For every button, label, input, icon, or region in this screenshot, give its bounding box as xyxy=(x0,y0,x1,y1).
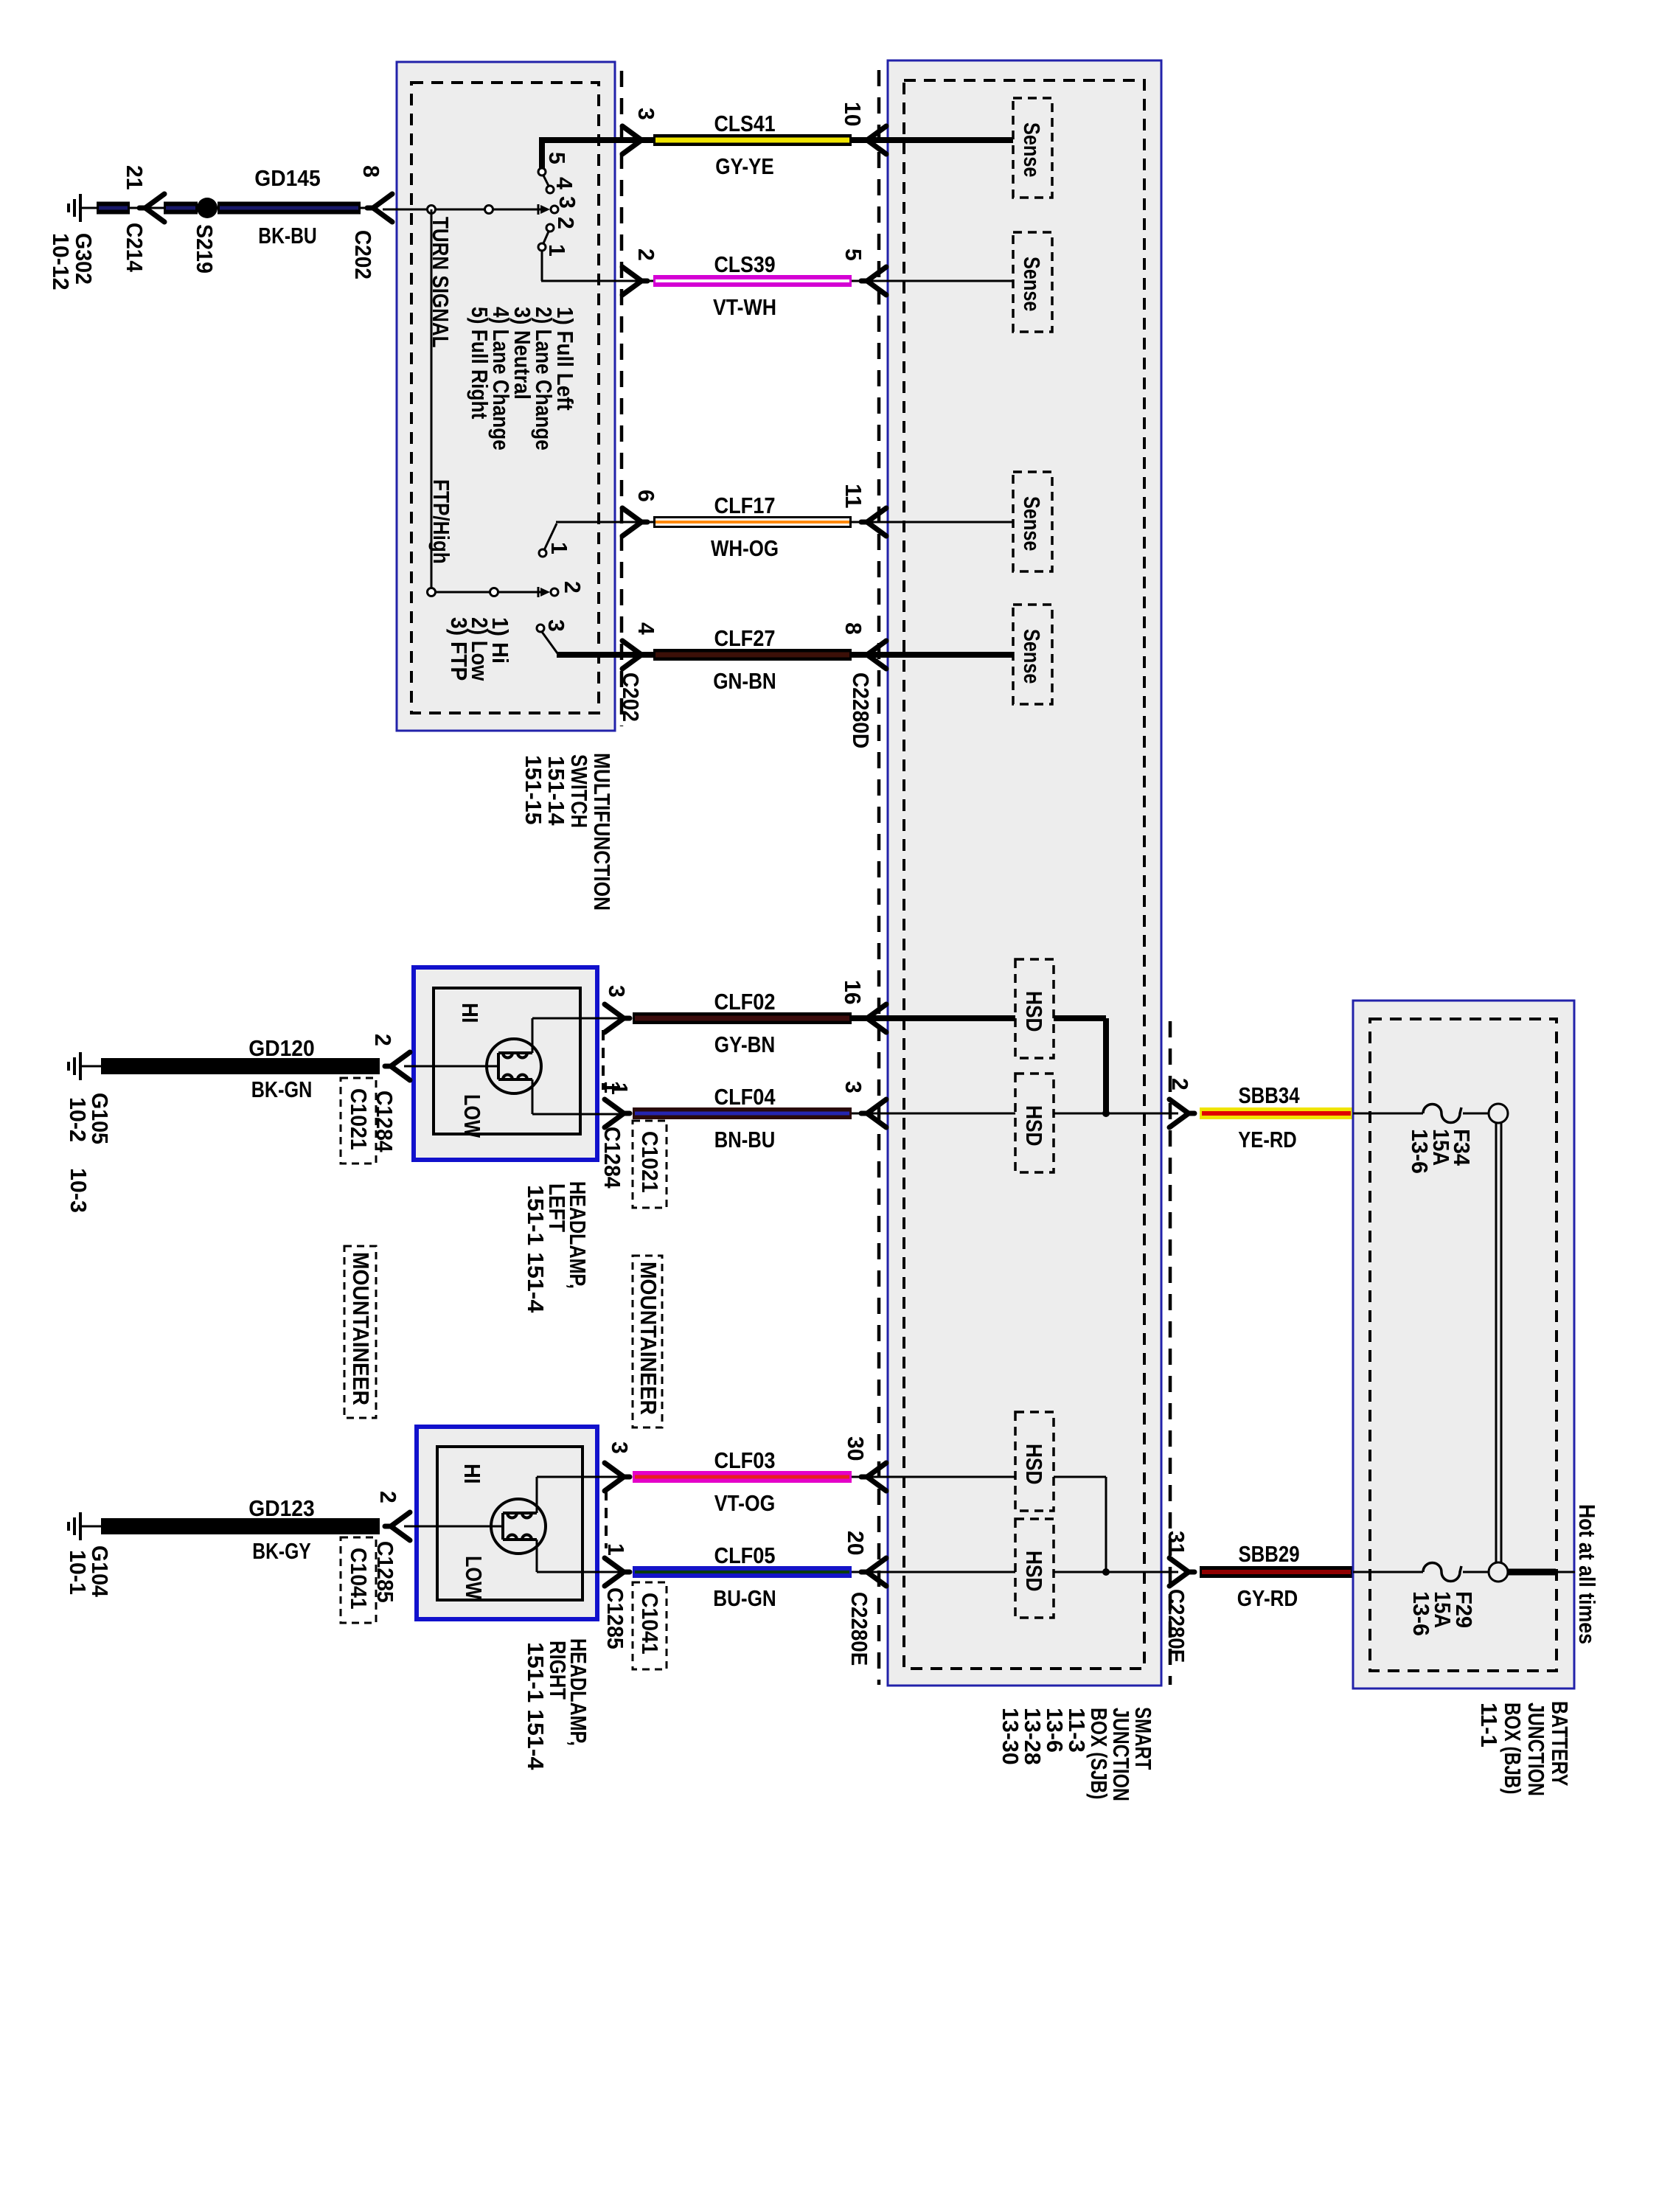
svg-text:Hot at all times: Hot at all times xyxy=(1574,1504,1600,1644)
mountaineer box right xyxy=(633,1256,662,1427)
svg-text:HI: HI xyxy=(457,1003,483,1023)
svg-text:1: 1 xyxy=(546,542,572,554)
connector C1285 dashed line right xyxy=(605,1490,608,1548)
svg-text:JUNCTION: JUNCTION xyxy=(1523,1703,1549,1796)
svg-text:C1041: C1041 xyxy=(637,1593,663,1655)
svg-text:151-1 151-4: 151-1 151-4 xyxy=(523,1185,549,1313)
connector C1284 dashed line left xyxy=(602,1030,605,1090)
svg-text:4: 4 xyxy=(552,177,577,190)
wire SBB34 YE-RD xyxy=(1200,1107,1353,1119)
sense box 3 xyxy=(1013,472,1052,571)
svg-text:4: 4 xyxy=(633,622,659,636)
turn signal contact 3 xyxy=(551,206,558,213)
wire ftp contact1 feed xyxy=(544,524,557,550)
wire CLF05 to C2280E xyxy=(1054,1571,1178,1573)
wire contact1 feed xyxy=(541,251,543,281)
svg-text:CLF03: CLF03 xyxy=(714,1447,775,1473)
svg-text:HSD: HSD xyxy=(1021,1444,1047,1485)
connector C202 arrow GD145 xyxy=(367,194,392,222)
svg-text:S219: S219 xyxy=(192,224,218,274)
ground G302 xyxy=(69,194,80,222)
svg-text:2: 2 xyxy=(375,1491,401,1503)
turn signal contact 2 xyxy=(546,224,554,232)
battery junction box xyxy=(1353,1001,1574,1688)
svg-text:C202: C202 xyxy=(618,672,644,722)
node A xyxy=(428,206,436,214)
wire GD145 BK-BU xyxy=(218,202,361,215)
svg-text:C1284: C1284 xyxy=(599,1127,625,1189)
svg-text:C202: C202 xyxy=(350,230,376,279)
svg-text:Sense: Sense xyxy=(1019,257,1045,312)
svg-text:HSD: HSD xyxy=(1021,1551,1047,1592)
svg-text:BK-GN: BK-GN xyxy=(251,1077,313,1102)
svg-text:151-14: 151-14 xyxy=(543,756,569,826)
svg-text:3: 3 xyxy=(633,108,659,120)
wire CLS39 row xyxy=(615,280,653,282)
svg-text:2: 2 xyxy=(560,581,585,594)
wire GD123 BK-GY xyxy=(101,1518,380,1534)
wire SBB29 GY-RD xyxy=(1200,1566,1353,1578)
fuse F34 xyxy=(1423,1105,1461,1123)
node D xyxy=(490,588,498,597)
svg-text:C2280D: C2280D xyxy=(848,672,874,748)
svg-text:LOW: LOW xyxy=(461,1556,487,1600)
wire G104 stub xyxy=(80,1526,101,1528)
ring terminal F29 xyxy=(1489,1562,1508,1582)
svg-text:20: 20 xyxy=(843,1531,869,1556)
wire CLS41 row xyxy=(615,138,653,142)
wire CLF04 row xyxy=(633,1107,852,1119)
svg-text:VT-OG: VT-OG xyxy=(714,1490,776,1516)
svg-text:13-6: 13-6 xyxy=(1408,1591,1434,1636)
svg-text:GD120: GD120 xyxy=(248,1035,314,1061)
ground GD120 arrow xyxy=(385,1052,410,1080)
svg-text:3: 3 xyxy=(604,985,630,998)
turn signal contact 1 xyxy=(538,243,546,251)
svg-text:3: 3 xyxy=(554,196,580,209)
svg-text:C1021: C1021 xyxy=(637,1131,663,1193)
svg-text:5) Full Right: 5) Full Right xyxy=(467,307,493,419)
svg-text:CLF27: CLF27 xyxy=(714,625,775,651)
svg-text:10-3: 10-3 xyxy=(66,1168,91,1213)
connector C1041 box right xyxy=(633,1582,667,1669)
svg-text:CLF02: CLF02 xyxy=(714,989,775,1015)
wire CLF04 to C2280E xyxy=(1054,1113,1178,1115)
svg-text:C1021: C1021 xyxy=(346,1088,372,1150)
svg-text:151-1 151-4: 151-1 151-4 xyxy=(523,1642,549,1770)
svg-text:1: 1 xyxy=(599,1081,625,1093)
svg-text:MOUNTAINEER: MOUNTAINEER xyxy=(348,1252,374,1405)
svg-text:LOW: LOW xyxy=(459,1094,485,1138)
turn signal wiper xyxy=(538,204,540,215)
hsd box 2 xyxy=(1015,1074,1054,1172)
svg-text:C214: C214 xyxy=(122,223,147,273)
ground G104 xyxy=(69,1512,80,1540)
lamp symbol left xyxy=(487,1039,541,1093)
node C xyxy=(428,588,436,597)
connector C202 dashed line xyxy=(620,71,624,726)
ftp contact 2 xyxy=(551,588,558,596)
svg-text:CLS41: CLS41 xyxy=(714,111,775,136)
wire CLF02 row xyxy=(633,1012,852,1024)
ground GD123 arrow xyxy=(385,1512,410,1540)
connector C1021 box left xyxy=(341,1078,376,1164)
svg-text:CLS39: CLS39 xyxy=(714,251,775,277)
svg-text:C2280E: C2280E xyxy=(846,1592,872,1666)
connector C1041 box left xyxy=(341,1537,376,1623)
svg-text:8: 8 xyxy=(841,622,866,635)
wire segment BK-BU mid xyxy=(164,202,198,215)
svg-text:1: 1 xyxy=(544,244,570,257)
svg-text:C2280E: C2280E xyxy=(1164,1589,1189,1663)
wire CLF03 row xyxy=(633,1471,852,1483)
svg-text:BATTERY: BATTERY xyxy=(1547,1701,1573,1787)
svg-text:3) FTP: 3) FTP xyxy=(446,617,472,681)
svg-text:13-6: 13-6 xyxy=(1407,1129,1433,1174)
hsd box 1 xyxy=(1015,959,1054,1058)
svg-text:2: 2 xyxy=(370,1034,396,1046)
svg-text:BOX (BJB): BOX (BJB) xyxy=(1500,1703,1526,1795)
wire lamp left hi feed xyxy=(532,1018,534,1053)
wire ftp common xyxy=(431,591,543,594)
svg-text:Sense: Sense xyxy=(1019,122,1045,178)
wire CLF27 row xyxy=(615,653,653,657)
svg-text:30: 30 xyxy=(843,1436,869,1461)
svg-text:HSD: HSD xyxy=(1021,991,1047,1032)
svg-text:5: 5 xyxy=(841,248,866,261)
wire turn signal common xyxy=(383,209,543,211)
ring terminal F34 xyxy=(1489,1104,1508,1123)
svg-text:HSD: HSD xyxy=(1021,1105,1047,1147)
svg-text:5: 5 xyxy=(544,152,570,164)
wire contact5 feed xyxy=(539,140,545,168)
wire lamp left ground xyxy=(404,1065,498,1068)
svg-text:CLF05: CLF05 xyxy=(714,1543,775,1568)
svg-text:BN-BU: BN-BU xyxy=(714,1127,776,1152)
wire CLS39 inside switch xyxy=(541,280,653,282)
svg-text:G302: G302 xyxy=(71,233,97,285)
svg-text:3: 3 xyxy=(607,1441,633,1454)
svg-text:11: 11 xyxy=(841,484,866,509)
connector C1021 box right xyxy=(633,1121,667,1208)
ground G105 xyxy=(69,1052,80,1080)
bus bar xyxy=(1495,1123,1498,1562)
wire lamp right hi feed xyxy=(536,1477,538,1513)
mountaineer box left xyxy=(344,1246,376,1418)
svg-text:GY-YE: GY-YE xyxy=(715,153,774,179)
multifunction switch box xyxy=(397,62,615,731)
svg-text:Sense: Sense xyxy=(1019,496,1045,552)
connector C214 arrow xyxy=(139,194,164,222)
wire hot feed xyxy=(1508,1569,1556,1576)
svg-text:BU-GN: BU-GN xyxy=(713,1585,776,1611)
fuse F29 xyxy=(1423,1563,1461,1582)
ftp wiper xyxy=(538,587,540,597)
sense box 1 xyxy=(1013,98,1052,198)
wire CLS41 inside switch xyxy=(539,137,653,143)
wire ftp contact3 feed xyxy=(542,632,557,653)
svg-text:GD123: GD123 xyxy=(248,1495,314,1521)
svg-text:GY-RD: GY-RD xyxy=(1237,1585,1298,1611)
switch arm 2-1 xyxy=(543,232,549,243)
headlamp right box xyxy=(417,1427,597,1619)
svg-text:GN-BN: GN-BN xyxy=(713,668,776,694)
svg-text:3: 3 xyxy=(841,1081,866,1093)
sense box 4 xyxy=(1013,605,1052,704)
connector C2280E arrow SBB29 xyxy=(1169,1558,1194,1586)
connector C2280D dashed line xyxy=(877,70,881,1685)
svg-text:C1285: C1285 xyxy=(602,1587,628,1649)
svg-text:2: 2 xyxy=(633,248,659,261)
junction CLF03/CLF05 xyxy=(1102,1568,1110,1576)
smart junction box xyxy=(888,60,1161,1686)
lamp symbol right xyxy=(491,1499,546,1554)
connector C2280E arrow SBB34 xyxy=(1169,1099,1194,1127)
svg-text:BK-BU: BK-BU xyxy=(258,223,317,248)
headlamp left box xyxy=(414,967,597,1160)
svg-text:VT-WH: VT-WH xyxy=(713,294,776,320)
svg-text:11-1: 11-1 xyxy=(1476,1703,1502,1747)
turn signal contact 4 xyxy=(546,186,554,193)
ftp contact 1 xyxy=(539,549,546,557)
wire CLF05 row xyxy=(633,1566,852,1578)
svg-text:10-1: 10-1 xyxy=(65,1550,91,1595)
connector C2280E dashed line xyxy=(1169,1021,1172,1685)
svg-text:1: 1 xyxy=(603,1543,629,1556)
wire F34 feed xyxy=(1353,1113,1423,1115)
turn signal contact 5 xyxy=(538,168,546,175)
ftp contact 3 xyxy=(537,625,544,632)
svg-text:3: 3 xyxy=(543,619,569,632)
svg-text:SBB29: SBB29 xyxy=(1238,1541,1299,1567)
wire G105 stub xyxy=(80,1065,101,1068)
sense box 2 xyxy=(1013,232,1052,332)
svg-text:HI: HI xyxy=(459,1464,485,1484)
svg-text:CLF04: CLF04 xyxy=(714,1084,776,1110)
junction CLF02/CLF04 xyxy=(1102,1110,1110,1117)
wire GD145 thin run xyxy=(80,207,373,209)
svg-text:6: 6 xyxy=(633,490,659,502)
splice S219 xyxy=(197,198,218,218)
hsd box 3 xyxy=(1015,1412,1054,1511)
svg-text:MOUNTAINEER: MOUNTAINEER xyxy=(636,1262,661,1415)
wire CLF02 to junction xyxy=(1054,1015,1106,1021)
wire lamp right ground xyxy=(404,1526,503,1528)
svg-text:10-12: 10-12 xyxy=(48,233,74,291)
svg-text:21: 21 xyxy=(122,165,147,190)
svg-text:8: 8 xyxy=(358,165,384,178)
headlamp right inner box xyxy=(437,1447,582,1600)
svg-text:WH-OG: WH-OG xyxy=(711,535,779,561)
battery junction box dashed border xyxy=(1370,1019,1557,1671)
wire segment BK-BU left xyxy=(97,202,130,215)
hsd box 4 xyxy=(1015,1519,1054,1618)
svg-text:BK-GY: BK-GY xyxy=(252,1538,311,1564)
node B xyxy=(485,206,493,214)
wire F29 feed xyxy=(1353,1571,1423,1573)
multifunction switch dashed border xyxy=(411,83,599,713)
svg-text:MULTIFUNCTION: MULTIFUNCTION xyxy=(589,753,615,911)
svg-text:13-30: 13-30 xyxy=(998,1708,1023,1765)
svg-text:SBB34: SBB34 xyxy=(1238,1082,1300,1108)
svg-text:16: 16 xyxy=(840,980,866,1005)
wire CLF03 to junction xyxy=(1054,1476,1106,1478)
svg-text:CLF17: CLF17 xyxy=(714,493,775,518)
smart junction box dashed border xyxy=(904,80,1144,1669)
svg-text:151-15: 151-15 xyxy=(521,755,546,825)
svg-text:GD145: GD145 xyxy=(254,165,320,191)
wire common vertical xyxy=(431,209,433,592)
wire GD120 BK-GN xyxy=(101,1058,380,1074)
wire lamp right low feed xyxy=(536,1540,538,1572)
svg-text:2: 2 xyxy=(553,217,579,229)
svg-text:SWITCH: SWITCH xyxy=(566,754,592,828)
svg-text:31: 31 xyxy=(1164,1531,1189,1556)
wire CLF17 row xyxy=(615,521,653,524)
wire lamp left low feed xyxy=(532,1079,534,1114)
svg-text:GY-BN: GY-BN xyxy=(714,1032,776,1057)
headlamp left inner box xyxy=(434,988,580,1134)
svg-text:Sense: Sense xyxy=(1019,629,1045,684)
svg-text:YE-RD: YE-RD xyxy=(1238,1127,1297,1152)
svg-text:10-2: 10-2 xyxy=(65,1097,91,1142)
svg-text:10: 10 xyxy=(840,102,866,127)
switch arm 5-4 xyxy=(543,175,549,186)
svg-text:C1041: C1041 xyxy=(346,1548,372,1610)
